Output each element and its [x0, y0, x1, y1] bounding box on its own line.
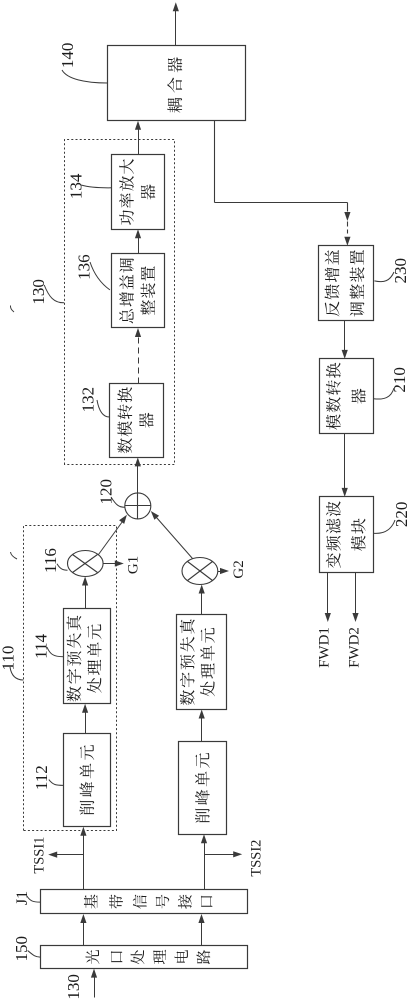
- label 140: [58, 43, 107, 83]
- svg-text:114: 114: [31, 633, 50, 658]
- svg-text:136: 136: [74, 254, 93, 280]
- dashed wire 132 to 136: [135, 328, 141, 384]
- label TSSI2: [249, 840, 265, 877]
- label 210: [374, 367, 409, 399]
- wire 210 to filter 220: [342, 434, 348, 497]
- label 220: [374, 502, 409, 534]
- stray mark near label 130: [10, 306, 14, 313]
- wire J1 to CFR2: [201, 834, 207, 889]
- svg-text:FWD2: FWD2: [346, 627, 362, 668]
- svg-text:130: 130: [29, 279, 48, 305]
- antenna output arrow: [173, 2, 179, 45]
- svg-text:G1: G1: [126, 556, 142, 574]
- label J1: [14, 891, 40, 905]
- wire 136 to 134: [135, 229, 141, 253]
- feedback wire from coupler: [215, 121, 348, 203]
- label 120: [96, 479, 125, 507]
- power amplifier 134: [112, 155, 165, 230]
- svg-text:140: 140: [58, 43, 77, 69]
- wire J1 to CFR1: [80, 827, 86, 890]
- stray mark near label 116: [11, 552, 18, 559]
- wire 134 to coupler: [135, 121, 141, 155]
- label 112: [32, 765, 63, 790]
- label 114: [31, 633, 63, 658]
- svg-text:132: 132: [79, 387, 98, 413]
- wire multiplierG2 to summer: [151, 511, 193, 559]
- dashed group box 130: [65, 140, 175, 465]
- label 130 (group): [29, 279, 64, 305]
- dashed feedback arrow into 230: [344, 203, 350, 246]
- optical port processing circuit 150: [41, 946, 248, 969]
- svg-text:TSSI1: TSSI1: [32, 837, 48, 874]
- label 134: [67, 173, 112, 199]
- input signal 130 arrow: [91, 969, 97, 998]
- svg-text:130: 130: [64, 974, 83, 1000]
- G1 coefficient arrow: [104, 560, 124, 566]
- label TSSI1: [32, 837, 48, 874]
- svg-text:116: 116: [41, 548, 60, 573]
- peak clipping unit (ch2): [179, 742, 227, 835]
- label G2: [231, 560, 247, 578]
- label 130 (input): [64, 974, 83, 1000]
- svg-text:G2: G2: [231, 560, 247, 578]
- peak clipping unit 112 (ch1): [64, 734, 111, 827]
- label 136: [74, 254, 110, 290]
- dashed group box 110: [24, 526, 117, 831]
- svg-text:134: 134: [67, 173, 86, 199]
- feedback gain adjusting device 230: [319, 246, 374, 321]
- svg-text:FWD1: FWD1: [317, 627, 333, 668]
- multiplier 116 (ch1): [68, 551, 104, 577]
- label FWD2: [346, 627, 362, 668]
- wire multiplier116 to summer: [99, 515, 127, 555]
- svg-text:220: 220: [392, 502, 409, 528]
- FWD1 output arrow: [325, 573, 331, 623]
- label 132: [79, 387, 110, 417]
- label 116: [41, 548, 68, 573]
- summer 120: [125, 493, 151, 519]
- svg-text:150: 150: [12, 936, 31, 962]
- svg-text:230: 230: [391, 258, 409, 284]
- digital-to-analog converter 132: [110, 384, 164, 458]
- wire summer to DAC 132: [135, 457, 141, 492]
- TSSI1 branch arrow: [48, 852, 83, 858]
- wire 114 to multiplier 116: [82, 577, 88, 609]
- label 230: [374, 258, 409, 284]
- label 110: [0, 646, 23, 680]
- digital predistortion processing unit (ch2): [177, 615, 227, 710]
- baseband signal interface J1: [41, 890, 248, 914]
- svg-text:210: 210: [390, 367, 409, 393]
- FWD2 output arrow: [352, 573, 358, 623]
- wire 230 to ADC 210: [342, 321, 348, 359]
- svg-text:120: 120: [96, 479, 115, 505]
- label G1: [126, 556, 142, 574]
- TSSI2 branch arrow: [205, 851, 243, 857]
- coupler 140: [108, 46, 246, 121]
- G2 coefficient arrow: [218, 568, 230, 574]
- svg-text:112: 112: [32, 765, 51, 790]
- digital predistortion processing unit 114 (ch1): [64, 609, 111, 704]
- total gain adjusting device 136: [112, 254, 165, 328]
- label 150: [12, 936, 40, 962]
- svg-text:TSSI2: TSSI2: [249, 840, 265, 877]
- svg-text:110: 110: [0, 646, 18, 671]
- label FWD1: [317, 627, 333, 668]
- wire 112 to 114: [82, 704, 88, 734]
- wire 150 to J1 (ch1): [80, 914, 86, 946]
- analog-to-digital converter 210: [320, 359, 374, 434]
- wire 150 to J1 (ch2): [198, 914, 204, 946]
- wire CFR2 to DPD2: [199, 710, 205, 742]
- multiplier G2 (ch2): [182, 558, 218, 585]
- wire DPD2 to multiplier G2: [199, 585, 205, 615]
- frequency conversion filtering module 220: [320, 497, 374, 573]
